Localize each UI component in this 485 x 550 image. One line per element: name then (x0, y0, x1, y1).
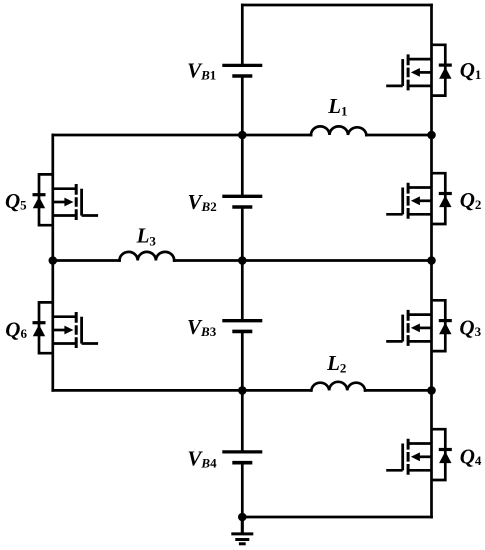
Q5 body-diode anode triangle (33, 197, 45, 209)
svg-text:Q1: Q1 (460, 58, 482, 82)
Q5 body-diode branch wire (39, 174, 53, 225)
wire VB2 negative plate to node B2 (241, 209, 244, 319)
Q6 substrate arrow (64, 326, 73, 335)
svg-text:Q2: Q2 (460, 188, 482, 212)
svg-text:L2: L2 (326, 351, 346, 376)
Q4 source lead (408, 469, 431, 472)
Q1 gate plate (401, 59, 404, 86)
Q1 source lead (408, 85, 431, 88)
Q6 source lead (53, 342, 76, 345)
svg-text:Q4: Q4 (460, 444, 482, 468)
Q2 body-diode anode triangle (439, 195, 451, 207)
junction node B4- (bottom / battery column) (238, 513, 247, 522)
junction node row3 / left column (49, 256, 58, 265)
Q2 gate lead (386, 213, 403, 216)
transistor Q2 (N-MOSFET with body diode) (386, 173, 452, 224)
Q5 channel segments (75, 184, 78, 220)
Q6 gate plate (80, 317, 83, 344)
wire left column bus (Q5/Q6 chain) (51, 135, 54, 390)
battery VB2 (222, 196, 262, 207)
svg-text:L3: L3 (136, 224, 157, 249)
wire top bus from battery stack to Q1 drain (242, 4, 431, 7)
Q3 substrate arrow (411, 324, 420, 333)
Q3 gate lead (386, 340, 403, 343)
wire VB4 negative plate to node B4- (241, 465, 244, 518)
Q6 gate lead (82, 342, 99, 345)
inductor L2 (311, 382, 365, 391)
Q5 drain lead (53, 187, 76, 190)
Q5 gate lead (82, 214, 99, 217)
Q4 body-diode anode triangle (439, 451, 451, 463)
Q3 body-diode cathode bar (439, 319, 452, 322)
Q5 substrate arrow (64, 198, 73, 207)
Q6 body-diode branch wire (39, 302, 53, 353)
inductor L3 (120, 252, 175, 261)
Q3 source lead (408, 340, 431, 343)
wire row4 bus: left column corner through node B3 to L2 (53, 389, 312, 392)
Q1 body-diode cathode bar (439, 63, 452, 66)
junction node row4 / right column (427, 386, 436, 395)
Q4 body-diode branch wire (432, 429, 446, 480)
wire row2 bus: L1 to right column junction (366, 134, 431, 137)
transistor Q1 (N-MOSFET with body diode) (386, 45, 452, 96)
wire top bus corner to VB1 positive plate (241, 5, 244, 64)
svg-text:VB4: VB4 (187, 446, 217, 470)
svg-text:Q3: Q3 (459, 315, 481, 339)
battery VB4 (222, 452, 262, 463)
junction node B3 (row4 / battery column) (238, 386, 247, 395)
Q4 gate lead (386, 469, 403, 472)
transistor Q4 (N-MOSFET with body diode) (386, 429, 452, 480)
Q2 gate plate (401, 188, 404, 215)
Q4 body lead (420, 455, 432, 458)
Q1 substrate arrow (411, 68, 420, 77)
wire row2 bus: left column corner through node B1 to L1 (53, 134, 311, 137)
Q4 drain lead (408, 442, 431, 445)
Q3 channel segments (407, 310, 410, 346)
Q2 channel segments (407, 183, 410, 219)
Q6 channel segments (75, 312, 78, 348)
Q2 source lead (408, 213, 431, 216)
Q5 source lead (53, 214, 76, 217)
svg-text:VB1: VB1 (187, 58, 216, 82)
svg-text:Q6: Q6 (5, 318, 27, 342)
Q1 body-diode anode triangle (439, 67, 451, 79)
wire right column bus (Q1-Q4 drain/source chain) (430, 5, 433, 517)
ground (231, 517, 253, 544)
Q2 body lead (420, 199, 432, 202)
Q1 body-diode branch wire (432, 45, 446, 96)
wire row3 bus: left column junction to L3 (53, 259, 120, 262)
wire bottom bus from ground node to Q4 source (242, 516, 431, 519)
Q6 body-diode anode triangle (33, 325, 45, 337)
wire row3 bus: L3 through node B2 to right column junction (174, 259, 431, 262)
Q3 body-diode anode triangle (439, 323, 451, 335)
Q6 body lead (53, 329, 65, 332)
Q2 drain lead (408, 186, 431, 189)
Q4 gate plate (401, 444, 404, 471)
Q5 gate plate (80, 189, 83, 216)
Q6 body-diode cathode bar (33, 321, 46, 324)
Q3 gate plate (401, 315, 404, 342)
Q1 drain lead (408, 58, 431, 61)
wire VB3 negative plate to node B3 (241, 333, 244, 450)
svg-text:VB2: VB2 (188, 190, 217, 214)
Q4 substrate arrow (411, 452, 420, 461)
junction node B1 (row2 / battery column) (238, 131, 247, 140)
Q3 drain lead (408, 313, 431, 316)
battery VB3 (222, 321, 262, 332)
Q5 body-diode cathode bar (33, 193, 46, 196)
wire VB1 negative plate to node B1 (241, 78, 244, 195)
junction node B2 (row3 / battery column) (238, 256, 247, 265)
svg-text:L1: L1 (327, 94, 347, 119)
Q3 body-diode branch wire (432, 300, 446, 351)
Q2 body-diode branch wire (432, 173, 446, 224)
Q4 body-diode cathode bar (439, 448, 452, 451)
transistor Q5 (N-MOSFET with body diode) (33, 174, 99, 225)
Q1 channel segments (407, 54, 410, 90)
svg-text:VB3: VB3 (187, 315, 217, 339)
junction node row2 / right column (427, 131, 436, 140)
Q1 gate lead (386, 85, 403, 88)
junction node row3 / right column (427, 256, 436, 265)
Q1 body lead (420, 71, 432, 74)
battery VB1 (222, 65, 262, 76)
Q2 substrate arrow (411, 196, 420, 205)
wire row4 bus: L2 to right column junction (365, 389, 431, 392)
Q4 channel segments (407, 439, 410, 475)
Q2 body-diode cathode bar (439, 192, 452, 195)
transistor Q3 (N-MOSFET with body diode) (386, 300, 452, 351)
svg-text:Q5: Q5 (5, 189, 27, 213)
Q5 body lead (53, 201, 65, 204)
inductor L1 (311, 126, 366, 135)
transistor Q6 (N-MOSFET with body diode) (33, 302, 99, 353)
wire node B4- to ground (241, 517, 244, 533)
Q3 body lead (420, 327, 432, 330)
Q6 drain lead (53, 315, 76, 318)
